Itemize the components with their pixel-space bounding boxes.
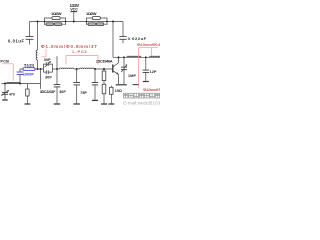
resistor R5 base bias lower: [102, 81, 106, 104]
svg-text:30P: 30P: [44, 58, 51, 62]
wire Q2 emitter down: [118, 74, 120, 84]
transistor Q2 2SC1946A: [113, 63, 119, 75]
capacitor C9 12P to ground: [143, 57, 149, 81]
leader coil spec to L1: [41, 49, 46, 57]
node C8 tap: [94, 68, 96, 70]
leader PCB wire: [2, 64, 13, 81]
node R2 left: [86, 21, 88, 23]
svg-text:15Ω: 15Ω: [115, 89, 122, 93]
ground Q2 emitter: [116, 84, 122, 86]
ground C8: [92, 99, 98, 101]
wire R2 top branch: [87, 17, 108, 19]
ground stray mid-right: [133, 84, 139, 86]
svg-text:1Ω/2W: 1Ω/2W: [86, 11, 97, 16]
svg-text:Φ1.0mm/Φ0.8mm/3T: Φ1.0mm/Φ0.8mm/3T: [41, 44, 97, 49]
wire top bus: [30, 21, 124, 23]
svg-text:E-mail:swdz@163: E-mail:swdz@163: [123, 101, 160, 106]
wire base node segment: [35, 68, 44, 70]
resistor R1c: [54, 23, 61, 26]
node base junction A: [37, 68, 39, 70]
resistor combo R2 left rail: [86, 18, 88, 25]
svg-text:1Ω/2W: 1Ω/2W: [51, 11, 62, 16]
wire L1 drop from bus: [37, 22, 39, 51]
resistor combo R1 right rail: [65, 18, 67, 25]
capacitor C8 base bypass to ground: [92, 69, 98, 100]
node collector: [118, 56, 120, 58]
leader bracket L2 L3: [66, 56, 98, 65]
inductor L5: [150, 56, 161, 57]
ground R5: [101, 103, 107, 105]
ground R7: [25, 103, 31, 105]
node bus VCC-drop: [112, 21, 114, 23]
svg-text:30P: 30P: [45, 76, 52, 80]
wire R3 left to C4: [20, 69, 23, 72]
wire Q1 branch vertical: [40, 69, 42, 89]
resistor R3 51ohm (blue): [23, 68, 35, 71]
node trimmer CT3 tap: [4, 83, 6, 85]
capacitor C1 0.01uF input: [26, 22, 34, 45]
node R1 right: [65, 21, 67, 23]
trimmer capacitor CT1 30P top branch: [44, 61, 53, 72]
svg-text:30P: 30P: [59, 90, 66, 94]
leader drop to L5: [151, 48, 153, 56]
ground C9: [143, 81, 149, 83]
resistor R2c: [96, 23, 103, 26]
svg-text:Φ4.2mm/4T: Φ4.2mm/4T: [143, 88, 160, 92]
resistor R6 15ohm: [110, 86, 113, 104]
resistor R1b: [46, 23, 53, 26]
leader underline coil spec: [139, 47, 158, 49]
node base junction B: [40, 68, 42, 70]
trimmer capacitor CT2 to ground: [121, 57, 127, 84]
capacitor C7 75P to ground: [73, 69, 80, 103]
resistor R2b: [88, 23, 95, 26]
resistor R1a 1ohm/2W: [52, 17, 60, 20]
capacitor C4 1000P (blue): [17, 72, 24, 74]
inductor L6 pcb coil: [7, 82, 21, 83]
svg-text:1MP: 1MP: [128, 74, 137, 78]
resistor R2a 1ohm/2W: [92, 17, 100, 20]
resistor combo R2 right rail: [106, 18, 108, 25]
node VCC tap: [73, 21, 75, 23]
node C6 tap: [56, 68, 58, 70]
svg-text:51(Ω): 51(Ω): [24, 64, 35, 68]
svg-text:12P: 12P: [150, 70, 157, 74]
svg-text:VCC: VCC: [70, 8, 78, 12]
inductor L2: [60, 68, 74, 69]
svg-text:3DC2231F: 3DC2231F: [40, 90, 56, 94]
ground CT2: [121, 84, 127, 86]
wire L1 to base node: [37, 60, 39, 69]
svg-text:Φ4.0mm/Φ0.8: Φ4.0mm/Φ0.8: [137, 43, 160, 47]
svg-text:470: 470: [9, 92, 15, 96]
leader drop to L4: [138, 48, 140, 88]
svg-text:2SC1946A: 2SC1946A: [96, 59, 113, 64]
resistor combo R1 left rail: [44, 18, 46, 25]
node R1 left: [44, 21, 46, 23]
capacitor C6 30P to ground: [54, 69, 61, 103]
wire R1 top branch: [45, 17, 66, 19]
wire L3 to Q2 base: [94, 68, 112, 70]
inductor L1 vertical coil: [36, 50, 37, 60]
wire L2-L3: [74, 68, 80, 70]
wire stub above C6 node: [56, 56, 58, 69]
capacitor C2 0.022uF decoupling: [119, 22, 126, 44]
ground C7: [74, 103, 80, 105]
ground R6: [108, 103, 114, 105]
ground CT3: [2, 99, 8, 101]
svg-text:75P: 75P: [80, 91, 87, 95]
svg-text:0.01uF: 0.01uF: [8, 39, 24, 44]
wire collector rail: [113, 56, 160, 58]
node C9 tap: [145, 56, 147, 58]
red annotation group: [0, 43, 161, 92]
wire bottom-left rail: [2, 83, 41, 85]
inductor L4: [127, 56, 141, 57]
wire Q2 collector up: [118, 57, 120, 63]
wire VCC drop to collector rail: [112, 22, 114, 58]
svg-text:L-PC3: L-PC3: [72, 49, 87, 54]
resistor R7 bottom-left branch: [26, 84, 29, 104]
svg-text:0.022uF: 0.022uF: [128, 36, 147, 41]
node CT2 tap: [123, 56, 125, 58]
trimmer capacitor CT3 to ground: [1, 84, 8, 100]
power 13.5V VCC symbol: [71, 12, 78, 22]
node R2 right: [106, 21, 108, 23]
wire R1 bottom branch: [45, 23, 66, 25]
capacitor C5 30P bottom branch: [44, 70, 53, 74]
node bus-L1: [37, 21, 39, 23]
resistor R4 base bias upper: [102, 69, 106, 81]
ground C6: [54, 103, 60, 105]
svg-text:PCB: PCB: [0, 59, 9, 64]
node C4 rail tap: [19, 83, 21, 85]
wire C4 to bottom rail: [19, 75, 21, 84]
node R4 base: [103, 68, 105, 70]
inductor L3: [80, 68, 94, 69]
node C7 tap: [76, 68, 78, 70]
watermark text line1 (CJK-like blocks): [123, 93, 159, 98]
wire combo to L2: [53, 68, 60, 70]
wire R2 bottom branch: [87, 23, 108, 25]
svg-text:1000P: 1000P: [23, 72, 35, 76]
